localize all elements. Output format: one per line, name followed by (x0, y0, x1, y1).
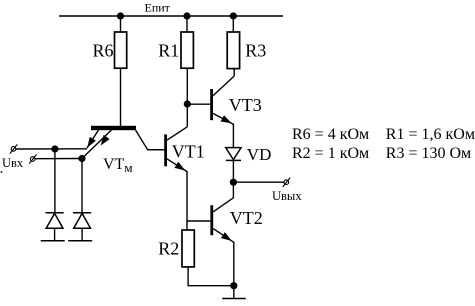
wire VT1 emitter to R2 (186, 171, 188, 230)
node rail-R3 (230, 12, 237, 19)
resistor R1 (181, 32, 193, 68)
base bar VT2 (210, 205, 213, 235)
svg-text:R2 = 1 кОм: R2 = 1 кОм (292, 145, 369, 162)
wire output line (233, 181, 283, 183)
wire diode2 drop (81, 159, 83, 213)
stray mark bottom-left (1, 171, 3, 173)
wire rail to R6 (120, 16, 122, 32)
transistor VT3 (187, 76, 261, 124)
emitter 1 with arrow (87, 130, 99, 148)
node input1-diode1 (51, 145, 58, 152)
resistor R3 (227, 32, 239, 69)
emitter with arrow (213, 113, 233, 124)
wire VT3 emitter to VD (232, 124, 234, 148)
node input2-diode2 (78, 155, 85, 162)
input terminal 2 (29, 154, 36, 163)
node rail-R1 (183, 12, 190, 19)
svg-text:Uвых: Uвых (272, 189, 302, 203)
node VT3 base tap (184, 100, 191, 107)
collector (213, 76, 234, 96)
wire rail to R1 (186, 16, 188, 32)
diode VD (226, 145, 272, 164)
input terminal 1 (10, 144, 18, 153)
ground (222, 298, 246, 300)
transistor VT1 (148, 127, 205, 172)
node rail-R6 (117, 12, 124, 19)
transistor VT2 (187, 182, 263, 242)
svg-text:R3: R3 (245, 41, 266, 61)
svg-text:Uвх: Uвх (2, 156, 24, 170)
wire input line 1 (16, 148, 87, 150)
base bar VT3 (210, 89, 213, 120)
collector lead (136, 130, 165, 150)
svg-text:R2: R2 (158, 238, 179, 258)
svg-text:Епит: Епит (145, 1, 171, 15)
transistor VTm (multi-emitter) (82, 126, 164, 175)
collector (167, 127, 187, 140)
wire top supply rail (59, 15, 283, 17)
svg-text:VT1: VT1 (172, 141, 205, 161)
base bar (91, 126, 136, 130)
emitter with arrow (213, 229, 234, 243)
wire to ground (233, 286, 235, 299)
svg-text:VT3: VT3 (229, 95, 262, 115)
svg-text:R1 = 1,6 кОм: R1 = 1,6 кОм (386, 126, 475, 143)
base lead VT3 (187, 103, 210, 105)
svg-text:VT2: VT2 (230, 208, 263, 228)
wire R1 to VT1 collector / VT3 base node (186, 68, 188, 127)
node ground junction (230, 282, 237, 289)
resistor R2 (182, 230, 194, 267)
diode D2 (input clamp) (73, 213, 91, 241)
output terminal (283, 178, 291, 187)
wire R2 bottom (188, 267, 234, 286)
collector (213, 198, 233, 212)
wire VD to output node (232, 160, 234, 182)
wire input line 2 (35, 158, 82, 160)
svg-text:R6 = 4 кОм: R6 = 4 кОм (292, 126, 369, 143)
svg-text:R3 = 130 Ом: R3 = 130 Ом (386, 145, 471, 162)
wire diode1 drop (54, 149, 56, 213)
emitter with arrow (167, 159, 187, 172)
ground diode D1 (41, 240, 65, 242)
wire R3 to VT3 collector (233, 69, 235, 76)
base lead VT2 (187, 220, 210, 222)
wire rail to R3 (232, 16, 234, 32)
wire VT2 emitter down (233, 242, 235, 286)
base lead VT1 (148, 149, 165, 151)
resistor R6 (115, 32, 127, 68)
svg-text:R6: R6 (93, 40, 114, 60)
node output (230, 179, 237, 186)
wire R6 to VTm base (120, 68, 122, 126)
svg-text:VD: VD (247, 145, 272, 164)
emitter 2 with arrow (82, 130, 112, 158)
diode D1 (input clamp) (46, 213, 64, 241)
ground diode D2 (68, 240, 92, 242)
base bar VT1 (164, 134, 167, 166)
svg-text:R1: R1 (158, 40, 179, 60)
